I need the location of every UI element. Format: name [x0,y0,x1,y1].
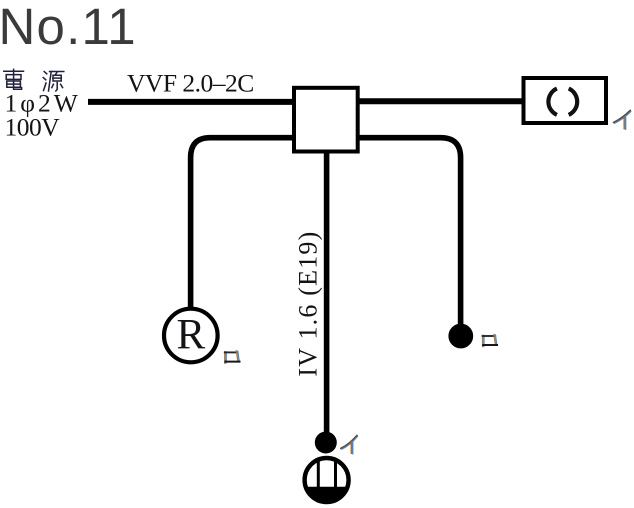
device box with ( ) symbol [524,78,607,123]
wire: center vertical drop from junction box [324,150,330,434]
wire: lower-right branch with bend down to switch dot [352,138,461,326]
kanji 電 (source label) [4,69,24,89]
junction box (outlet box) [294,88,358,152]
switch dot (right branch) [448,324,473,349]
wire: horizontal to outlet box (right of junction box) [352,98,523,104]
bar right inside outlet symbol [334,460,337,490]
label イ (device box) [614,110,631,129]
filled base segment [307,489,347,502]
left paren mark inside box [548,89,556,115]
svg-text:R: R [177,312,206,359]
lamp receptacle R [164,309,218,363]
ceiling outlet symbol (circle with bars and filled base) [305,458,349,502]
svg-text:IV 1.6 (E19): IV 1.6 (E19) [294,231,323,377]
label ロ (right switch) [483,335,497,347]
svg-text:100V: 100V [5,113,61,142]
wire: lower-left branch with bend down to lamp receptacle [191,138,300,307]
svg-text:No.11: No.11 [0,0,137,55]
wire: main power horizontal (left of junction box) [88,99,300,105]
svg-text:VVF 2.0–2C: VVF 2.0–2C [127,69,254,98]
label イ (bottom switch) [341,435,358,453]
kanji 源 (source label) [43,72,64,92]
bar left inside outlet symbol [317,460,320,490]
right paren mark inside box [569,89,577,115]
switch dot (bottom branch) [315,432,337,454]
label ロ (lamp receptacle) [225,351,240,363]
